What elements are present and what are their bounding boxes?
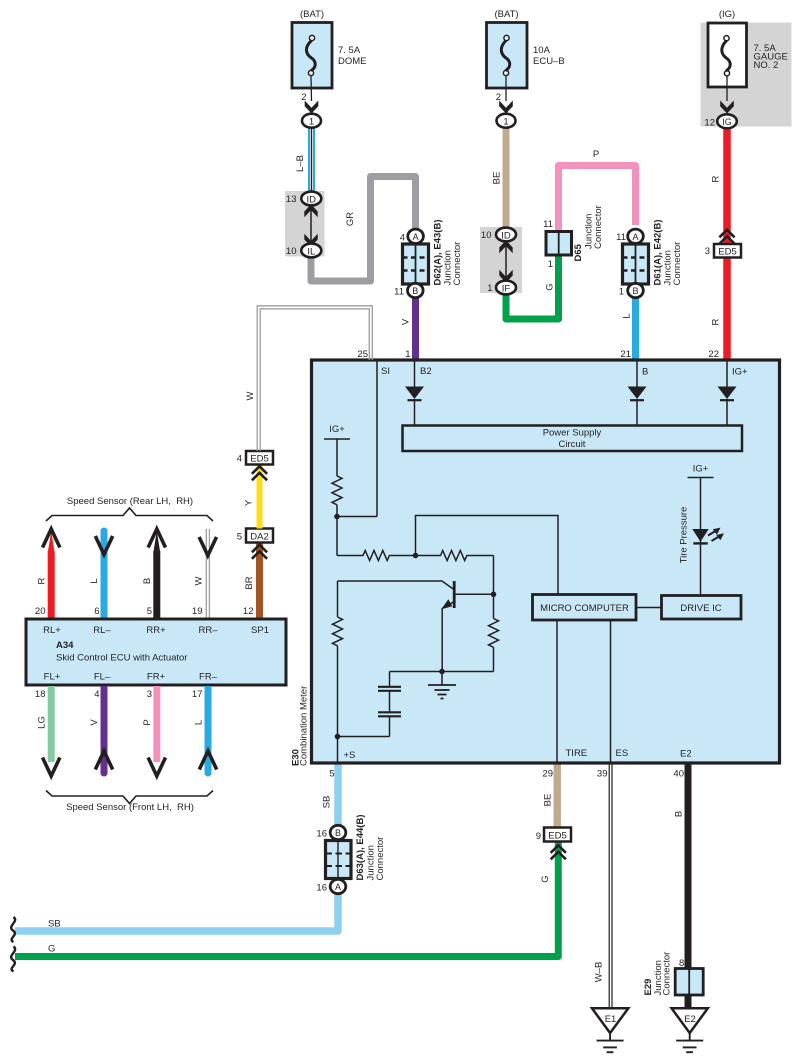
svg-text:IL: IL	[307, 246, 315, 257]
svg-text:B: B	[632, 286, 638, 296]
svg-text:16: 16	[316, 829, 327, 840]
svg-text:(BAT): (BAT)	[494, 9, 518, 20]
svg-text:W: W	[245, 391, 256, 400]
svg-text:IG+: IG+	[693, 464, 709, 475]
svg-text:V: V	[89, 719, 100, 726]
svg-text:1: 1	[619, 287, 624, 298]
svg-text:NO. 2: NO. 2	[754, 60, 779, 71]
svg-text:IG: IG	[722, 117, 732, 127]
svg-text:RR–: RR–	[198, 625, 218, 636]
svg-text:P: P	[142, 719, 153, 725]
svg-text:B: B	[642, 367, 648, 378]
svg-text:13: 13	[286, 194, 297, 205]
svg-text:A34: A34	[56, 640, 74, 651]
svg-text:D63(A), E44(B): D63(A), E44(B)	[355, 815, 366, 881]
svg-text:BR: BR	[244, 576, 255, 589]
svg-text:D65: D65	[573, 243, 584, 261]
svg-text:11: 11	[616, 232, 626, 243]
svg-text:Connector: Connector	[452, 242, 463, 286]
svg-text:Connector: Connector	[375, 837, 386, 881]
svg-text:B: B	[412, 286, 418, 296]
svg-text:29: 29	[542, 769, 553, 780]
svg-text:19: 19	[192, 606, 203, 617]
svg-text:L: L	[622, 313, 633, 318]
svg-text:9: 9	[536, 831, 541, 842]
svg-text:DOME: DOME	[338, 56, 367, 67]
svg-text:W: W	[194, 576, 205, 585]
svg-text:FL–: FL–	[94, 672, 111, 683]
svg-text:5: 5	[237, 532, 242, 543]
svg-text:B: B	[335, 828, 341, 838]
svg-text:3: 3	[147, 689, 152, 700]
svg-text:DA2: DA2	[250, 532, 268, 543]
svg-text:22: 22	[708, 349, 719, 360]
svg-text:ID: ID	[307, 194, 317, 205]
svg-text:V: V	[401, 318, 412, 325]
svg-text:LG: LG	[37, 716, 48, 729]
svg-text:R: R	[711, 318, 722, 325]
svg-text:2: 2	[496, 92, 501, 103]
svg-text:SI: SI	[381, 366, 390, 377]
svg-text:ID: ID	[501, 230, 511, 241]
svg-text:5: 5	[147, 606, 152, 617]
svg-text:B: B	[674, 811, 685, 817]
svg-text:11: 11	[543, 219, 553, 230]
svg-text:TIRE: TIRE	[566, 748, 588, 759]
svg-text:20: 20	[35, 606, 46, 617]
svg-text:ES: ES	[616, 748, 629, 759]
svg-text:Circuit: Circuit	[559, 439, 586, 450]
svg-text:Connector: Connector	[662, 952, 673, 996]
svg-text:21: 21	[620, 349, 631, 360]
svg-text:ED5: ED5	[250, 454, 268, 465]
svg-text:MICRO COMPUTER: MICRO COMPUTER	[540, 603, 629, 614]
svg-text:Speed Sensor (Front LH, RH): Speed Sensor (Front LH, RH)	[66, 802, 194, 813]
svg-text:4: 4	[237, 454, 242, 465]
svg-text:P: P	[593, 149, 599, 160]
svg-text:12: 12	[243, 606, 254, 617]
svg-text:IF: IF	[502, 283, 511, 294]
svg-text:25: 25	[357, 349, 368, 360]
svg-text:SB: SB	[322, 796, 333, 809]
svg-text:Y: Y	[244, 499, 255, 506]
svg-text:1: 1	[548, 259, 553, 270]
svg-text:SP1: SP1	[251, 625, 269, 636]
svg-text:GR: GR	[345, 212, 356, 226]
svg-text:ED5: ED5	[548, 831, 566, 842]
svg-text:+S: +S	[344, 750, 356, 761]
svg-text:RL+: RL+	[43, 625, 61, 636]
svg-text:10: 10	[481, 230, 492, 241]
svg-text:B2: B2	[420, 366, 432, 377]
svg-text:SB: SB	[48, 919, 61, 930]
svg-text:E2: E2	[684, 1014, 696, 1025]
svg-text:1: 1	[503, 117, 508, 128]
svg-text:ED5: ED5	[718, 247, 736, 258]
svg-text:G: G	[540, 875, 551, 882]
svg-text:Power Supply: Power Supply	[543, 428, 602, 439]
svg-text:R: R	[37, 577, 48, 584]
svg-text:RR+: RR+	[146, 625, 166, 636]
svg-text:Tire Pressure: Tire Pressure	[679, 507, 690, 564]
svg-text:R: R	[711, 175, 722, 182]
svg-text:39: 39	[597, 769, 608, 780]
svg-text:5: 5	[329, 769, 334, 780]
svg-text:A: A	[335, 882, 341, 892]
svg-text:E2: E2	[680, 749, 692, 760]
svg-text:18: 18	[35, 689, 46, 700]
svg-text:FR–: FR–	[199, 672, 218, 683]
svg-text:Connector: Connector	[593, 205, 604, 249]
svg-text:11: 11	[394, 287, 404, 298]
svg-text:Combination Meter: Combination Meter	[299, 686, 310, 766]
svg-text:A: A	[413, 232, 419, 242]
svg-text:BE: BE	[543, 794, 554, 807]
svg-text:G: G	[48, 944, 55, 955]
svg-text:4: 4	[94, 689, 99, 700]
svg-text:(BAT): (BAT)	[300, 9, 324, 20]
svg-text:E1: E1	[605, 1014, 617, 1025]
svg-text:L–B: L–B	[295, 155, 306, 172]
svg-text:L: L	[89, 578, 100, 583]
svg-text:BE: BE	[492, 172, 503, 185]
svg-text:W–B: W–B	[594, 962, 605, 983]
svg-text:FL+: FL+	[44, 672, 61, 683]
svg-text:16: 16	[316, 883, 327, 894]
svg-text:10: 10	[286, 246, 297, 257]
svg-text:RL–: RL–	[93, 625, 111, 636]
svg-text:1: 1	[405, 349, 410, 360]
svg-text:B: B	[142, 578, 153, 584]
svg-text:3: 3	[705, 246, 710, 257]
svg-text:IG+: IG+	[732, 367, 748, 378]
svg-text:1: 1	[487, 283, 492, 294]
svg-text:4: 4	[400, 233, 405, 244]
svg-text:ECU–B: ECU–B	[533, 56, 565, 67]
svg-text:10A: 10A	[533, 45, 551, 56]
svg-text:Speed Sensor (Rear LH, RH): Speed Sensor (Rear LH, RH)	[67, 496, 193, 507]
svg-text:7. 5A: 7. 5A	[338, 45, 361, 56]
svg-text:17: 17	[192, 689, 203, 700]
svg-text:6: 6	[94, 606, 99, 617]
svg-text:DRIVE IC: DRIVE IC	[680, 603, 721, 614]
svg-text:G: G	[545, 283, 556, 290]
svg-text:(IG): (IG)	[719, 9, 735, 20]
svg-text:40: 40	[673, 769, 684, 780]
svg-text:12: 12	[704, 118, 715, 129]
svg-text:2: 2	[301, 92, 306, 103]
svg-text:A: A	[632, 232, 638, 242]
svg-text:Connector: Connector	[672, 242, 683, 286]
svg-text:L: L	[194, 720, 205, 725]
svg-text:IG+: IG+	[329, 424, 345, 435]
svg-text:FR+: FR+	[147, 672, 166, 683]
svg-text:Skid Control ECU with Actuator: Skid Control ECU with Actuator	[56, 653, 187, 664]
svg-text:1: 1	[309, 117, 314, 128]
